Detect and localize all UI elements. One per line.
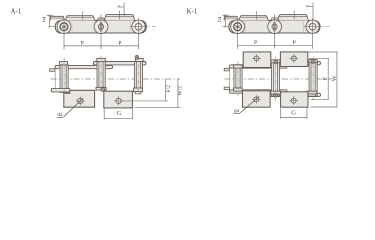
K-1 side view roller 2 outer <box>268 20 282 34</box>
K-1 W extension bottom <box>311 106 338 108</box>
svg-text:P: P <box>81 40 84 46</box>
K-1 pin 2 centerline <box>275 57 277 102</box>
K-1 top dim extension line <box>312 3 314 20</box>
K-1 side view roller 2 vertical centerline tick <box>274 14 276 36</box>
svg-text:P: P <box>254 40 257 46</box>
svg-text:P: P <box>118 40 121 46</box>
A-1 pin 2 top flange <box>97 58 106 61</box>
A-1 W/2 dimension line <box>177 79 179 108</box>
A-1 side view attachment tab stub (cut, left end) <box>51 16 65 20</box>
K-1 attachment plate 2 top <box>280 52 307 67</box>
K-1 G extension right <box>306 108 308 119</box>
K-1 side view roller 3 outer <box>306 20 319 33</box>
A-1 pin 3 bottom stub <box>135 92 141 94</box>
K-1 plan inner plate bar bottom <box>230 90 288 93</box>
K-1 F dimension line <box>327 58 329 99</box>
K-1 side view roller 2 bushing detail <box>272 22 277 31</box>
K-1 pitch extension line right <box>312 39 314 49</box>
K-1 plan outer plate bar top (link 2-3) <box>268 61 321 64</box>
K-1 side view roller 3 crosshair <box>304 26 322 28</box>
K-1 left height dimension extension tick <box>222 14 229 16</box>
A-1 G dimension line <box>104 117 133 119</box>
svg-text:G: G <box>117 110 122 117</box>
K-1 pin 1 bottom flange <box>234 88 243 91</box>
K-1 hole plate2 bottom <box>291 98 296 103</box>
svg-text:G: G <box>291 109 296 116</box>
K-1 pin 1 bushing column <box>234 65 242 91</box>
A-1 side view chain centerline <box>49 26 157 28</box>
svg-text:W/2: W/2 <box>178 86 184 96</box>
A-1 pin 3 bushing column <box>134 62 142 89</box>
K-1 attachment plate 1 bottom <box>243 91 271 107</box>
K-1 pin 3 cotter circle top <box>311 60 315 64</box>
A-1 attachment hole 1 <box>78 98 83 103</box>
K-1 pin 3 bottom flange <box>307 91 317 94</box>
svg-text:K-1: K-1 <box>187 8 198 16</box>
K-1 side view roller 1 outer <box>231 20 245 34</box>
A-1 top thickness dim line <box>119 6 124 8</box>
A-1 side view roller 1 outer <box>57 20 71 34</box>
K-1 attachment plate 2 bottom <box>281 92 308 107</box>
A-1 side view inner plate contour lines <box>71 21 73 34</box>
K-1 pin 2 cotter circle top <box>274 60 278 64</box>
K-1 plan outer plate bar bottom <box>268 93 321 96</box>
A-1 pitch extension line right <box>138 39 140 49</box>
A-1 plan cut outer plate stub (left) <box>50 69 55 72</box>
A-1 pin 2 bottom flange <box>96 87 106 90</box>
A-1 top thickness dim extension line <box>123 3 125 17</box>
K-1 hole plate1 bottom <box>254 97 259 102</box>
K-1 attachment hole center tick span1 <box>255 11 257 20</box>
A-1 G extension right <box>132 109 134 120</box>
K-1 pin 3 top flange <box>309 60 317 63</box>
A-1 pin 1 body <box>62 65 66 93</box>
A-1 attachment plate 2 <box>104 91 133 108</box>
K-1 attachment plate 1 top <box>243 52 271 68</box>
A-1 pin 2 centerline <box>100 56 102 96</box>
A-1 pitch extension line middle <box>100 36 102 49</box>
A-1 pitch extension line left <box>63 39 65 49</box>
K-1 top dim line <box>308 6 314 8</box>
K-1 pin 1 centerline <box>237 62 239 97</box>
svg-text:W: W <box>332 75 338 81</box>
A-1 side view roller 1 pin end (star) <box>60 23 68 31</box>
K-1 pin 2 top flange <box>271 60 280 63</box>
A-1 left height dimension line <box>49 15 51 26</box>
A-1 F/2 dimension line <box>165 79 167 101</box>
K-1 plan inner plate bar top (link 1-2) <box>230 65 288 68</box>
A-1 top thickness oblique tick <box>118 5 120 7</box>
A-1 pin 3 centerline <box>138 56 140 96</box>
K-1 side view attachment tab span 1 <box>239 16 268 21</box>
A-1 side view roller 1 vertical centerline tick <box>63 18 65 40</box>
A-1 attachment hole center tick span1 <box>82 11 84 20</box>
K-1 hole plate2 top <box>292 56 297 61</box>
K-1 side view guide bump over middle roller <box>271 18 279 21</box>
K-1 left height dimension line <box>224 15 226 27</box>
K-1 top dim oblique tick <box>306 5 308 7</box>
K-1 G dimension line <box>281 117 307 119</box>
K-1 pin 2 bushing column <box>271 61 279 96</box>
A-1 left height dim end ticks <box>49 15 51 17</box>
A-1 pin 3 bottom flange <box>134 88 143 92</box>
A-1 pin 1 centerline <box>63 58 65 95</box>
A-1 attachment hole center tick span2 <box>119 11 121 20</box>
A-1 attachment plate 1 <box>64 90 95 107</box>
K-1 plan cut stub bottom left <box>224 87 229 90</box>
A-1 side view roller 2 bushing detail <box>98 22 103 31</box>
K-1 pitch extension line left <box>237 39 239 49</box>
svg-text:h4: h4 <box>218 16 223 22</box>
K-1 W dimension line <box>336 52 338 107</box>
A-1 d4 leader line <box>64 98 84 117</box>
K-1 pin 2 cotter circle bottom <box>273 93 277 97</box>
K-1 side view roller 1 pin end (star) <box>234 23 242 31</box>
K-1 pitch extension line middle <box>274 36 276 49</box>
K-1 side view inner plate contour lines <box>245 21 247 34</box>
A-1 side view roller 3 outer <box>132 20 145 33</box>
K-1 pin 1 top flange <box>234 65 243 68</box>
K-1 pitch dimension line <box>238 44 313 46</box>
A-1 side view attachment tab span 2 <box>104 15 134 21</box>
A-1 pin 2 cotter circle bottom <box>101 88 105 92</box>
A-1 side view attachment tab span 1 <box>65 16 94 21</box>
svg-text:A-1: A-1 <box>11 8 22 16</box>
svg-text:P: P <box>293 40 296 46</box>
K-1 side view roller 3 inner <box>309 23 316 30</box>
K-1 plan centerline <box>225 78 333 80</box>
A-1 pin 3 body <box>136 62 140 89</box>
A-1 side view roller 3 inner <box>135 23 142 30</box>
svg-text:F/2: F/2 <box>166 85 172 93</box>
K-1 side view attachment tab stub (cut, left end) <box>224 16 238 20</box>
A-1 pin 2 bushing column <box>97 62 105 91</box>
K-1 pin 3 bottom stub <box>308 94 315 96</box>
K-1 side view attachment tab span 2 <box>278 15 308 21</box>
A-1 side view link plate capsule <box>55 21 146 34</box>
A-1 pin 1 bushing column <box>60 65 68 93</box>
K-1 W extension top <box>309 51 338 53</box>
K-1 hole plate1 top <box>254 56 259 61</box>
A-1 plan centerline <box>51 78 181 80</box>
A-1 plan outer plate bar (link 2-3) <box>93 62 146 65</box>
A-1 side view roller 2 outer <box>94 20 108 34</box>
A-1 pin 1 bottom flange bar <box>51 89 70 92</box>
K-1 plan chain cut line left <box>229 68 231 87</box>
A-1 G extension left <box>103 109 105 120</box>
A-1 pin 3 cotter circle <box>135 55 139 59</box>
K-1 F extension bottom <box>311 98 330 100</box>
A-1 attachment hole 2 <box>116 98 121 103</box>
K-1 attachment hole center tick span2 <box>293 11 295 20</box>
K-1 pin 1 body <box>236 65 240 91</box>
K-1 G extension left <box>280 108 282 119</box>
K-1 pin 2 body <box>273 61 277 96</box>
A-1 pin 1 top flange <box>60 62 68 65</box>
A-1 pin 2 body <box>99 62 103 91</box>
K-1 side view roller 1 vertical centerline tick <box>237 18 239 40</box>
K-1 left height dim end ticks <box>224 14 226 16</box>
K-1 pin 2 bottom flange <box>271 91 281 94</box>
A-1 side view roller 2 vertical centerline tick <box>100 14 102 36</box>
A-1 pitch dimension line <box>64 45 139 47</box>
A-1 pin 3 top flange <box>135 58 143 61</box>
K-1 F extension top <box>309 57 329 59</box>
A-1 plan chain cut line left <box>54 69 56 89</box>
K-1 pin 3 body <box>311 61 315 96</box>
A-1 left height dimension extension tick <box>47 14 54 16</box>
K-1 side view link plate capsule <box>229 21 320 34</box>
svg-text:h4: h4 <box>42 16 47 22</box>
A-1 W/2 extension from plate bottom <box>135 106 181 108</box>
A-1 plan inner plate bar (link 1-2) <box>55 65 113 68</box>
K-1 plan cut stub top left <box>224 68 229 71</box>
K-1 side view chain centerline <box>222 26 330 28</box>
K-1 d4 leader line <box>240 96 259 113</box>
A-1 F/2 extension from hole <box>122 100 169 102</box>
K-1 pin 3 bushing column <box>309 61 317 96</box>
A-1 side view guide bump over middle roller <box>97 18 105 21</box>
A-1 side view roller 3 crosshair <box>130 26 148 28</box>
K-1 pin 3 centerline <box>312 57 314 102</box>
